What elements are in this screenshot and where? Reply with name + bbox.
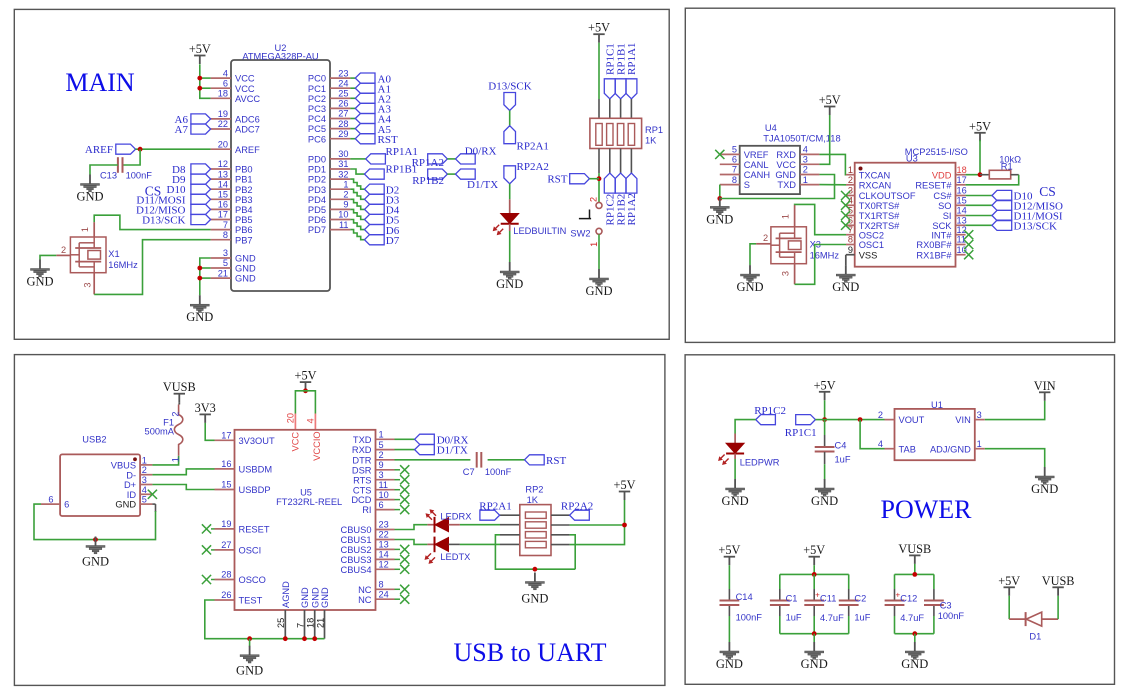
svg-text:8: 8 <box>379 580 384 590</box>
svg-text:1uF: 1uF <box>835 455 851 465</box>
U5 pin 7 GND (bottom) <box>295 587 310 639</box>
svg-text:27: 27 <box>338 109 348 119</box>
svg-text:15: 15 <box>218 190 228 200</box>
no-connect U5 CTS <box>400 485 409 494</box>
wire capacitor C11 wiring bottom <box>813 616 815 634</box>
U5 pin 15 USBDP <box>215 480 271 495</box>
wire +5V VDD <box>966 140 980 175</box>
wire nc OSCO <box>211 579 215 581</box>
capacitor C12 wiring lead top <box>894 589 896 600</box>
svg-text:16: 16 <box>221 459 231 469</box>
wire TAB <box>860 420 884 449</box>
power +5V (C14) <box>718 543 740 565</box>
svg-text:2: 2 <box>171 411 181 416</box>
LEDTX cathode lead <box>427 543 434 545</box>
X1 pin 2 lead <box>56 245 70 256</box>
U2 pin 9 PD5 <box>308 200 350 215</box>
wire PD4 to D4 <box>350 199 364 209</box>
svg-text:GND: GND <box>320 587 330 608</box>
junction +5V RP2 <box>622 523 627 528</box>
svg-text:11: 11 <box>379 480 389 490</box>
svg-text:3: 3 <box>781 271 791 276</box>
wire D13/SCK to RP2A1 <box>509 111 511 126</box>
svg-text:NC: NC <box>358 585 372 595</box>
capacitor C11 <box>804 591 844 623</box>
U5 pin 21 GND (bottom) <box>315 587 330 639</box>
LED LEDTX <box>425 537 471 564</box>
wire RP2 row3 right to gnd <box>570 535 576 569</box>
svg-text:2: 2 <box>803 165 808 175</box>
LEDRX cathode lead <box>427 524 434 526</box>
LEDPWR anode lead <box>734 434 736 444</box>
svg-text:RXD: RXD <box>776 150 796 160</box>
wire VCC pin4 <box>200 77 211 79</box>
svg-text:PC4: PC4 <box>308 114 326 124</box>
svg-text:CANL: CANL <box>744 160 769 170</box>
svg-text:1: 1 <box>80 227 90 232</box>
global label RP1C1 (power) <box>785 415 817 439</box>
USB2 pin 3 D+ <box>124 475 152 490</box>
U2 pin 4 VCC <box>211 68 255 83</box>
RP1 top lead col4 <box>630 99 632 118</box>
svg-text:SO: SO <box>938 201 951 211</box>
RP1 bottom lead col2 <box>609 149 611 174</box>
U5 pin 25 AGND (bottom) <box>276 581 291 639</box>
svg-text:1uF: 1uF <box>854 612 870 622</box>
wire C13 to GND <box>90 165 118 175</box>
svg-text:RP2A1: RP2A1 <box>517 141 549 153</box>
capacitor C12 wiring lead bottom <box>894 605 896 616</box>
junction GND21 <box>197 276 202 281</box>
junction +5V/VCC6 <box>197 86 202 91</box>
svg-text:VBUS: VBUS <box>111 461 136 471</box>
global label A4 (PC) <box>350 114 391 126</box>
svg-text:VSS: VSS <box>859 250 878 260</box>
global label A2 (PC) <box>350 93 391 105</box>
U3 pin 13 SCK <box>932 216 966 231</box>
svg-text:GND: GND <box>76 190 103 204</box>
wire PD3 to D3 <box>350 189 364 199</box>
wire nc NC8 <box>395 588 401 590</box>
ground (U1 ADJ) <box>1031 467 1058 496</box>
wire CBUS1 to LEDTX <box>395 540 428 545</box>
no-connect U5 CBUS4 <box>400 565 409 574</box>
svg-text:CBUS4: CBUS4 <box>340 565 371 575</box>
U2 pin 11 PD7 <box>308 220 350 235</box>
wire cap bus top 2 <box>895 573 934 575</box>
wire +5V to D1 <box>1008 596 1010 619</box>
svg-text:9: 9 <box>379 460 384 470</box>
capacitor C12 <box>885 591 925 623</box>
ground (LEDPWR) <box>722 479 749 508</box>
wire GND pin5 <box>200 267 211 269</box>
wire SW2 to GND <box>598 234 600 269</box>
ground (C12 group) <box>901 642 928 671</box>
no-connect U3 RX0BF# <box>964 240 973 249</box>
svg-text:CS: CS <box>145 183 162 198</box>
U4 pin 5 VREF <box>720 145 769 160</box>
svg-text:TXCAN: TXCAN <box>859 170 891 180</box>
power +5V (D1) <box>998 574 1020 596</box>
svg-text:+5V: +5V <box>814 378 836 392</box>
wire nc CTS <box>395 489 401 491</box>
wire nc OSCI <box>211 549 215 551</box>
svg-text:NC: NC <box>358 595 372 605</box>
svg-text:GND: GND <box>235 264 256 274</box>
wire nc CBUS3 <box>395 558 401 560</box>
svg-text:10: 10 <box>957 245 967 255</box>
diode D1 <box>1026 612 1042 641</box>
ground (C14) <box>716 642 743 671</box>
svg-text:DTR: DTR <box>352 455 371 465</box>
svg-text:GND: GND <box>82 555 109 569</box>
global label RP1B1 <box>365 164 418 180</box>
U5 pin 24 NC <box>358 589 394 604</box>
svg-text:14: 14 <box>379 550 389 560</box>
svg-text:PD1: PD1 <box>308 165 326 175</box>
svg-text:PB0: PB0 <box>235 165 253 175</box>
wire RP1C1 to node <box>815 419 824 421</box>
global label D1/TX <box>456 169 499 191</box>
U2 pin 25 PC2 <box>308 89 350 104</box>
wire 3V3 to 3V3OUT <box>205 423 214 440</box>
ground (C4) <box>811 479 838 508</box>
svg-text:RP1: RP1 <box>645 125 663 135</box>
connector USB2 body <box>60 435 140 517</box>
wire capacitor C12 wiring top <box>894 574 896 589</box>
svg-text:C1: C1 <box>786 594 798 604</box>
U4 pin 7 CANH <box>720 165 770 180</box>
svg-text:3: 3 <box>83 282 93 287</box>
global label D11/MOSI (U3) <box>992 210 1063 222</box>
wire node to VOUT <box>825 419 885 421</box>
svg-text:PD6: PD6 <box>308 215 326 225</box>
svg-text:GND: GND <box>310 587 320 608</box>
wire TXD to D0/RX <box>395 438 415 440</box>
svg-text:1: 1 <box>977 439 982 449</box>
RP1 top lead col2 <box>609 99 611 118</box>
power 3V3 <box>195 401 216 423</box>
title USB to UART <box>453 638 606 667</box>
wire +5V to node <box>824 400 826 419</box>
svg-text:1: 1 <box>781 214 791 219</box>
capacitor C2 <box>839 594 871 623</box>
global label RP2A1 (U5) <box>479 501 511 521</box>
LEDRX anode lead <box>449 524 520 526</box>
svg-text:14: 14 <box>957 206 967 216</box>
wire U3 D13/SCK <box>966 224 992 226</box>
svg-text:6: 6 <box>223 78 228 88</box>
svg-text:A7: A7 <box>175 124 189 136</box>
junction USB2 gnd <box>93 537 98 542</box>
U4 pin 3 VCC <box>776 155 819 170</box>
LEDTX anode lead <box>449 543 520 545</box>
svg-text:TX0RTS#: TX0RTS# <box>859 201 900 211</box>
svg-text:PD7: PD7 <box>308 225 326 235</box>
label CS annotation <box>145 183 162 198</box>
svg-text:VOUT: VOUT <box>899 415 925 425</box>
svg-text:U3: U3 <box>906 154 918 164</box>
U2 pin 24 PC1 <box>308 78 350 93</box>
svg-text:2: 2 <box>343 190 348 200</box>
svg-text:1: 1 <box>343 179 348 189</box>
wire X3 pin1 to OSC2 <box>795 204 846 234</box>
wire U4 TXD to U3 RXCAN <box>819 184 846 186</box>
wire +5V to AVCC <box>200 64 211 98</box>
svg-text:AVCC: AVCC <box>235 94 260 104</box>
U2 pin 18 AVCC <box>211 89 261 104</box>
svg-text:GND: GND <box>521 592 548 606</box>
svg-text:C13: C13 <box>100 171 117 181</box>
svg-text:D13/SCK: D13/SCK <box>1014 221 1057 233</box>
power +5V (U2 VCC) <box>189 42 211 64</box>
wire +5V to RP1 pin1 <box>598 43 600 99</box>
svg-text:C3: C3 <box>940 601 952 611</box>
svg-text:18: 18 <box>306 618 316 628</box>
svg-text:4: 4 <box>848 196 853 206</box>
power +5V (U1) <box>814 378 836 400</box>
power VUSB (D1) <box>1042 574 1075 596</box>
svg-text:2: 2 <box>61 245 66 255</box>
svg-text:5: 5 <box>223 258 228 268</box>
global label D11/MOSI (PB) <box>136 194 210 206</box>
svg-text:D0/RX: D0/RX <box>465 146 497 158</box>
svg-text:INT#: INT# <box>931 230 952 240</box>
svg-text:PD4: PD4 <box>308 195 326 205</box>
svg-text:+5V: +5V <box>295 369 317 383</box>
svg-text:4: 4 <box>878 439 883 449</box>
svg-text:1: 1 <box>379 430 384 440</box>
capacitor C14 wiring lead top <box>728 589 730 600</box>
svg-text:USB to UART: USB to UART <box>453 638 606 667</box>
U2 pin 7 PB6 <box>211 220 253 235</box>
svg-text:10: 10 <box>338 210 348 220</box>
svg-text:RP1C1: RP1C1 <box>785 427 817 439</box>
svg-text:POWER: POWER <box>881 495 973 524</box>
junction bus bottom C12 <box>912 631 917 636</box>
svg-text:VIN: VIN <box>955 415 971 425</box>
svg-text:3V3: 3V3 <box>195 401 216 415</box>
svg-text:PD2: PD2 <box>308 175 326 185</box>
wire nc CBUS4 <box>395 568 401 570</box>
svg-text:DSR: DSR <box>352 465 372 475</box>
U2 pin 3 GND <box>211 248 256 263</box>
svg-text:12: 12 <box>957 225 967 235</box>
svg-text:1K: 1K <box>527 495 539 505</box>
global label D4 <box>365 204 400 216</box>
svg-text:OSC2: OSC2 <box>859 230 884 240</box>
global label D12/MISO (PB) <box>136 204 211 216</box>
wire CBUS0 to LEDRX <box>395 525 428 530</box>
svg-text:100nF: 100nF <box>938 611 965 621</box>
global label RP1A1 (vertical) <box>626 43 638 99</box>
svg-text:TEST: TEST <box>239 596 263 606</box>
svg-text:LEDPWR: LEDPWR <box>740 458 780 468</box>
diode D1 anode lead <box>1009 618 1025 620</box>
svg-text:18: 18 <box>957 165 967 175</box>
svg-text:VUSB: VUSB <box>163 380 196 394</box>
U2 pin 2 PD4 <box>308 190 350 205</box>
svg-text:PC2: PC2 <box>308 94 326 104</box>
U2 pin 12 PB0 <box>211 159 253 174</box>
U2 pin 10 PD6 <box>308 210 350 225</box>
svg-text:PD5: PD5 <box>308 205 326 215</box>
USB2 pin 5 GND <box>115 495 152 510</box>
global label RP2A1 (vertical) <box>504 126 549 153</box>
capacitor C7 <box>463 452 512 477</box>
U2 pin 6 VCC <box>211 78 255 93</box>
U4 pin 8 S <box>720 175 750 190</box>
svg-text:PB1: PB1 <box>235 175 253 185</box>
global label D9 (PB) <box>172 174 211 186</box>
svg-text:2: 2 <box>379 450 384 460</box>
F1 top lead <box>178 402 181 409</box>
junction U4 GND <box>717 196 722 201</box>
U2 pin 14 PB2 <box>211 179 253 194</box>
wire bus2 to gnd <box>914 634 916 642</box>
ground (RP2) <box>521 573 548 606</box>
svg-text:14: 14 <box>218 179 228 189</box>
U3 pin 6 TX2RTS# <box>846 216 900 231</box>
wire RXD to D1/TX <box>395 449 415 451</box>
svg-text:RST: RST <box>378 134 398 146</box>
svg-text:RTS: RTS <box>353 475 371 485</box>
ground (X1) <box>26 260 53 289</box>
capacitor C2 wiring lead bottom <box>848 605 850 616</box>
svg-text:1: 1 <box>803 175 808 185</box>
svg-text:+5V: +5V <box>718 543 740 557</box>
svg-text:C2: C2 <box>854 594 866 604</box>
wire RP1 pin1 to RST node <box>598 173 600 202</box>
svg-text:RP2A1: RP2A1 <box>479 501 511 513</box>
U3 pin 5 TX1RTS# <box>846 206 900 221</box>
wire TEST to gnd bus <box>205 600 325 639</box>
resistor pack RP1 1K <box>590 118 663 148</box>
no-connect U5 DCD <box>400 495 409 504</box>
svg-text:6: 6 <box>379 500 384 510</box>
svg-text:12: 12 <box>218 159 228 169</box>
junction gnd bus A <box>247 636 252 641</box>
global label RST (PC) <box>350 134 398 146</box>
svg-text:ID: ID <box>127 490 137 500</box>
svg-text:SI: SI <box>943 211 952 221</box>
ground (SW2) <box>585 269 612 298</box>
U4 pin 6 CANL <box>720 155 769 170</box>
svg-text:RXCAN: RXCAN <box>859 180 892 190</box>
global label D7 <box>365 235 400 247</box>
op-amp U2 ATMEGA328P-AU body <box>231 43 330 291</box>
svg-text:2: 2 <box>848 175 853 185</box>
wire LEDPWR to GND <box>734 459 736 479</box>
svg-text:CANH: CANH <box>744 170 770 180</box>
U5 pin 17 3V3OUT <box>215 431 275 446</box>
RP2 row2 right lead <box>551 524 570 526</box>
ground (U3 VSS) <box>832 265 859 294</box>
no-connect U3 TX0RTS# <box>841 201 850 210</box>
U1 pin 3 VIN <box>955 410 985 425</box>
wire X1 pin3 to PB7 <box>94 240 210 295</box>
svg-text:FT232RL-REEL: FT232RL-REEL <box>276 497 342 507</box>
X3 pin 1 lead <box>781 205 795 227</box>
svg-text:CBUS3: CBUS3 <box>340 555 371 565</box>
USB2 pin 6 shield <box>41 494 69 509</box>
svg-text:VCC: VCC <box>235 74 255 84</box>
svg-text:VDD: VDD <box>932 170 952 180</box>
junction +5V U5 <box>303 388 308 393</box>
junction +5V/RP1C1 <box>822 417 827 422</box>
svg-text:VCCIO: VCCIO <box>312 431 322 460</box>
ground (U4) <box>706 197 733 226</box>
global label RP1A2 (vertical) <box>626 173 638 225</box>
svg-text:C11: C11 <box>820 594 836 604</box>
wire U3 VSS to GND <box>845 255 847 265</box>
LEDPWR cathode lead <box>734 454 736 460</box>
global label D12/MISO (U3) <box>992 200 1063 212</box>
junction GND5 <box>197 266 202 271</box>
svg-text:D-: D- <box>126 470 136 480</box>
svg-text:5: 5 <box>379 440 384 450</box>
svg-text:2: 2 <box>142 465 147 475</box>
svg-text:500mA: 500mA <box>145 427 175 437</box>
ground (C1 group) <box>801 642 828 671</box>
wire gnd stem (U5) <box>249 639 251 647</box>
wire PD1 to RP1B1 <box>350 169 364 174</box>
U3 pin 10 RX1BF# <box>916 245 966 260</box>
no-connect U5 CBUS2 <box>400 545 409 554</box>
RP1 bottom lead col4 <box>630 149 632 174</box>
LEDBUILTIN cathode lead <box>509 224 511 231</box>
capacitor C13 <box>100 157 152 180</box>
svg-text:25: 25 <box>276 618 286 628</box>
wire PD2 to D2 <box>350 179 364 189</box>
panel frame MAIN <box>14 9 669 339</box>
wire nc RTS <box>395 479 401 481</box>
U5 pin 18 GND (bottom) <box>306 587 321 639</box>
wire node to C4 <box>824 420 826 435</box>
global label A3 (PC) <box>350 103 391 115</box>
svg-text:CBUS0: CBUS0 <box>340 525 371 535</box>
svg-text:PD0: PD0 <box>308 155 326 165</box>
power VUSB (C12 group) <box>898 542 931 564</box>
svg-text:6: 6 <box>48 494 53 504</box>
U3 pin 1 TXCAN <box>846 165 890 180</box>
svg-text:GND: GND <box>775 170 796 180</box>
U2 pin 23 PC0 <box>308 68 350 83</box>
U5 pin 23 CBUS0 <box>340 520 394 535</box>
U2 pin 26 PC3 <box>308 99 350 114</box>
svg-text:RX0BF#: RX0BF# <box>916 240 952 250</box>
svg-text:5: 5 <box>142 495 147 505</box>
global label RP2A2 (vertical) <box>504 161 549 184</box>
U2 pin 28 PC5 <box>308 119 350 134</box>
svg-text:GND: GND <box>186 310 213 324</box>
svg-text:U1: U1 <box>931 400 943 410</box>
wire nc DCD <box>395 499 401 501</box>
svg-text:RX1BF#: RX1BF# <box>916 250 952 260</box>
U2 pin 17 PB5 <box>211 210 253 225</box>
wire U4 GND2 loop <box>720 175 835 199</box>
svg-text:23: 23 <box>379 520 389 530</box>
junction bus top C11 <box>812 572 817 577</box>
switch SW2 <box>570 197 602 247</box>
U4 pin 1 TXD <box>777 175 819 190</box>
U5 pin 20 VCC (top) <box>286 413 301 452</box>
svg-text:RESET: RESET <box>239 525 270 535</box>
wire D+ to USBDP <box>152 485 214 490</box>
svg-text:GND: GND <box>901 657 928 671</box>
U3 pin 3 CLKOUTSOF <box>846 186 916 201</box>
svg-text:4: 4 <box>223 68 228 78</box>
